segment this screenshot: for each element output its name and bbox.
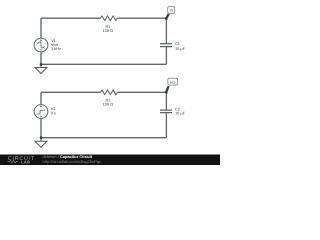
- logo zigzag: [8, 160, 19, 163]
- source V1 plus: [40, 39, 42, 41]
- wire right vertical below C1: [165, 47, 167, 64]
- wire bottom horizontal circuit 2: [41, 137, 166, 139]
- svg-text:LAB: LAB: [21, 160, 30, 165]
- node flag in pointer: [166, 14, 168, 18]
- wire bottom horizontal circuit 1: [41, 63, 166, 65]
- source V1 sine symbol: [36, 41, 45, 49]
- wire top horizontal left of R1: [41, 17, 101, 19]
- capacitor C1: [160, 44, 172, 47]
- watermark bar: [0, 155, 220, 166]
- node flag in box: [168, 7, 175, 14]
- wire top horizontal right of R2: [117, 91, 166, 93]
- wire top-left vertical circuit 1: [40, 18, 42, 38]
- resistor R2: [101, 90, 118, 95]
- source V2 step symbol: [37, 110, 45, 114]
- svg-text:100 Ω: 100 Ω: [103, 101, 114, 106]
- wire right vertical below C2: [165, 113, 167, 138]
- ground circuit 2: [35, 138, 47, 148]
- svg-text:10 µF: 10 µF: [175, 46, 186, 51]
- ground circuit 1: [35, 64, 47, 74]
- junction node circuit2 right: [165, 91, 167, 93]
- junction node circuit1 ground: [40, 63, 42, 65]
- wire right vertical above C1: [165, 18, 167, 43]
- resistor R1: [101, 16, 118, 21]
- node flag in2 pointer: [166, 86, 168, 91]
- svg-text:0 s: 0 s: [51, 110, 56, 115]
- wire top horizontal right of R1: [117, 17, 166, 19]
- svg-text:1 kHz: 1 kHz: [51, 46, 61, 51]
- junction node circuit2 ground: [40, 137, 42, 139]
- node flag in2 box: [168, 78, 178, 85]
- svg-text:in2: in2: [170, 81, 175, 85]
- wire right vertical above C2: [165, 92, 167, 109]
- svg-text:10 µF: 10 µF: [175, 110, 186, 115]
- svg-text:100 Ω: 100 Ω: [103, 28, 114, 33]
- junction node circuit1 right: [165, 17, 167, 19]
- source V2 minus: [40, 116, 42, 118]
- source V2: [34, 105, 48, 119]
- capacitor C2: [160, 110, 172, 113]
- wire top horizontal left of R2: [41, 91, 101, 93]
- wire source V2 bottom to ground node: [40, 119, 42, 138]
- source V1: [34, 38, 48, 52]
- source V2 plus: [40, 106, 42, 108]
- wire source V1 bottom to ground node: [40, 52, 42, 64]
- wire top-left vertical circuit 2: [40, 92, 42, 104]
- svg-text:in: in: [170, 9, 173, 13]
- svg-text:http://circuitlab.com/c/6sg2hn: http://circuitlab.com/c/6sg2hnPgc: [43, 159, 102, 164]
- source V1 minus: [40, 49, 42, 51]
